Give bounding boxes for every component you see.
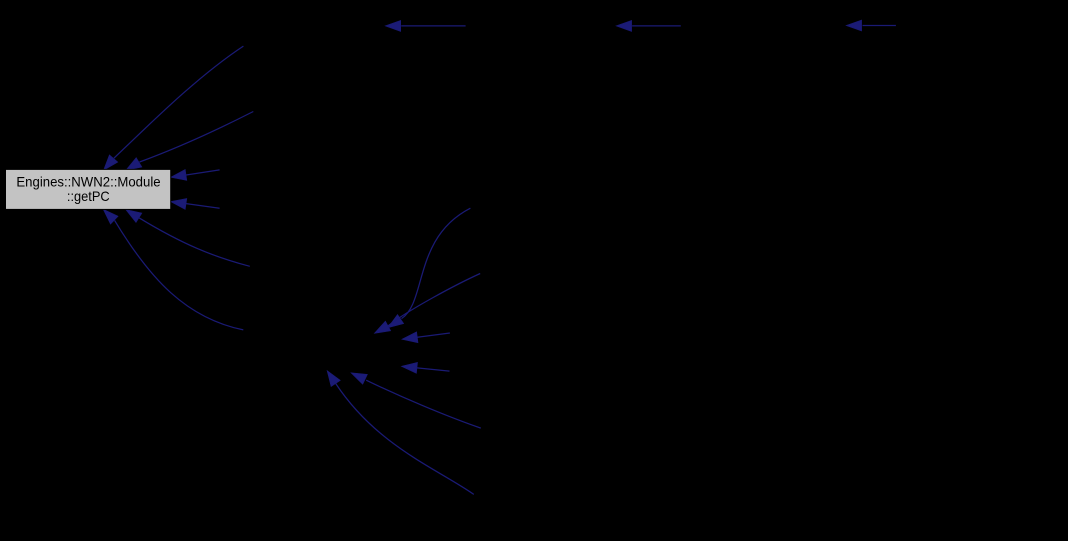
- edge into-box-top-2: [126, 112, 254, 171]
- edge top-1: [385, 20, 465, 31]
- edge lower-node-bottom-1: [327, 371, 474, 495]
- edge lower-node-right: [402, 362, 450, 373]
- edge top-2: [616, 20, 681, 31]
- node Engines::NWN2::Module::getPC: [6, 169, 171, 209]
- edge lower-node-bottom-2: [351, 373, 481, 428]
- edge into-box-bottom-1: [103, 209, 243, 330]
- edge mid-node-right-1: [388, 208, 471, 328]
- edge into-box-right-2: [171, 199, 220, 210]
- svg-text:Engines::NWN2::Module: Engines::NWN2::Module: [16, 173, 160, 189]
- edge mid-node-right-2: [374, 274, 480, 334]
- edge into-box-top-1: [104, 46, 244, 170]
- edge top-3: [846, 20, 896, 31]
- svg-text:::getPC: ::getPC: [67, 188, 110, 204]
- edge into-box-bottom-2: [126, 210, 250, 267]
- edge into-box-right-1: [171, 170, 220, 181]
- edge mid-node-right-3: [402, 332, 450, 343]
